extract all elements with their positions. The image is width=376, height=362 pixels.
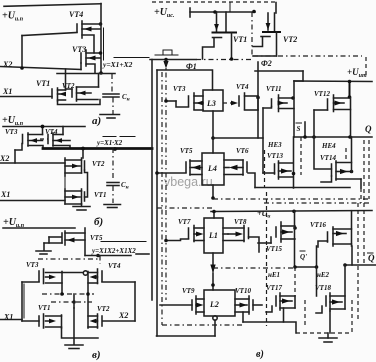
svg-text:VT7: VT7 [178,218,191,226]
dash box borders inverters [300,137,302,175]
svg-text:L2: L2 [209,300,219,309]
wire top power rail [4,4,101,7]
svg-text:VT3: VT3 [72,45,86,54]
svg-text:X1: X1 [2,87,12,96]
node circle [83,271,87,275]
svg-text:Cн: Cн [121,181,129,191]
wire bottom bus [242,312,244,322]
wire output node drop [99,256,101,265]
wire bottom source bus [58,100,101,105]
svg-text:VT16: VT16 [310,221,326,229]
svg-text:б): б) [94,216,103,228]
capacitor Cn [112,148,114,181]
svg-text:Ф2: Ф2 [261,59,272,68]
ground under capacitor [112,98,114,115]
node output wire y=X1+X2 [99,71,103,75]
svg-text:VT5: VT5 [180,147,193,155]
node clock rail F2 [253,55,362,57]
svg-text:VT1: VT1 [233,35,247,44]
node circle L2 output [213,316,217,320]
svg-text:в): в) [92,349,101,361]
clock pulse icon [155,54,178,56]
svg-text:+Uи.п: +Uи.п [3,217,25,229]
wire L3 bottom to NE3 [212,111,214,153]
wire dash link to node [213,267,295,269]
wire Q output line [294,136,372,138]
right dash rail [357,203,359,322]
wire L1 bottom arrow [212,253,214,271]
wire top bridge [152,1,276,3]
svg-text:Q: Q [365,124,372,134]
wire VT4 source down [82,35,94,53]
wire gate riser to X2 [21,36,23,69]
svg-text:+Uи.п: +Uи.п [2,11,24,23]
wire rail drop to VT4 [100,4,102,25]
svg-text:а): а) [92,115,101,127]
wire L4 bottom feedback [212,185,214,198]
wire power rail top [189,8,191,17]
svg-text:VT13: VT13 [267,152,283,160]
svg-text:VT9: VT9 [182,287,195,295]
wire bottom dash rail [162,324,243,326]
svg-text:VT4: VT4 [69,10,83,19]
svg-text:VT5: VT5 [90,234,103,242]
svg-text:+Uи.п: +Uи.п [2,115,24,127]
ground under VT1 [81,204,83,206]
wire +Uit power rail [255,70,303,72]
wire Q feedback down [368,140,370,199]
svg-text:VT18: VT18 [315,284,331,292]
lower half dash rails [157,207,213,209]
wire VT1 drain up [65,69,67,90]
element L1 [204,218,223,253]
svg-text:X2: X2 [0,154,9,163]
svg-text:Q: Q [368,253,375,263]
svg-text:VT17: VT17 [266,284,282,292]
wire +Ui lower rail [211,211,372,212]
wire link [64,176,66,189]
svg-text:L1: L1 [208,231,218,240]
wire NE3 drain rail [293,81,295,137]
svg-text:VT12: VT12 [314,90,330,98]
element L2 [204,290,235,316]
svg-text:L4: L4 [207,164,217,173]
wire left gate rail [21,282,23,321]
svg-text:нЕ1: нЕ1 [268,271,280,279]
svg-text:VT8: VT8 [234,218,247,226]
node clock rail F1 [150,59,196,61]
svg-text:VT10: VT10 [235,287,251,295]
wire output bus y=X1X2 [43,147,152,150]
svg-text:+Uис.: +Uис. [154,7,175,19]
ground small [36,250,51,252]
svg-text:VT2: VT2 [97,305,110,313]
svg-text:НЕ4: НЕ4 [321,142,336,150]
wire power rail [3,126,85,128]
wire output rail [100,24,102,73]
wire VT3 source to output [86,64,95,73]
ground [73,338,75,345]
wire VT5 gate to ground [49,236,61,238]
svg-text:VT15: VT15 [266,245,282,253]
svg-text:VT14: VT14 [320,154,336,162]
svg-text:L3: L3 [206,99,216,108]
svg-text:VT3: VT3 [26,261,39,269]
svg-text:VT2: VT2 [92,160,105,168]
svg-text:VT4: VT4 [236,83,249,91]
svg-text:Q': Q' [300,253,307,261]
svg-text:y=X1·X2: y=X1·X2 [96,139,123,147]
svg-text:+Uит: +Uит [347,67,367,79]
element L3 [203,90,223,111]
svg-text:VT6: VT6 [236,147,249,155]
svg-text:VT1: VT1 [36,79,50,88]
node junction VT4 drain [99,22,103,26]
wire Q bar output [345,264,376,266]
svg-text:Cн: Cн [122,93,130,103]
wire VT2 gate down [85,170,88,197]
svg-text:в): в) [256,349,264,360]
ground bottom [327,333,329,338]
wire power rail [3,227,75,229]
svg-text:VT2: VT2 [283,35,297,44]
wire cross coupling [42,293,94,295]
svg-text:нЕ2: нЕ2 [317,271,330,279]
svg-text:VT3: VT3 [5,128,18,136]
element L4 [202,153,224,185]
wire VT2 drain up [98,74,100,88]
svg-text:X2: X2 [118,311,128,320]
wire cross couple NE3 [262,108,264,173]
svg-text:НЕ3: НЕ3 [267,141,282,149]
capacitor Cn [111,74,113,93]
svg-text:X1: X1 [3,313,13,322]
ground under capacitor [112,186,114,203]
wire right gate rail [134,282,136,321]
wire dash link [38,258,98,260]
svg-text:VT3: VT3 [173,85,186,93]
wire bottom source bus [62,328,99,338]
svg-text:VT1: VT1 [94,191,106,199]
svg-text:vbega.ru: vbega.ru [164,175,213,189]
wire cell feed [157,70,213,90]
svg-text:S: S [297,125,301,133]
svg-text:VT1: VT1 [38,304,50,312]
svg-text:X1: X1 [0,190,10,199]
svg-text:VT4: VT4 [108,262,121,270]
svg-text:VT11: VT11 [266,85,282,93]
wire left rails [151,60,153,301]
svg-text:y=X1+X2: y=X1+X2 [102,60,133,69]
wire node bus [295,266,317,268]
